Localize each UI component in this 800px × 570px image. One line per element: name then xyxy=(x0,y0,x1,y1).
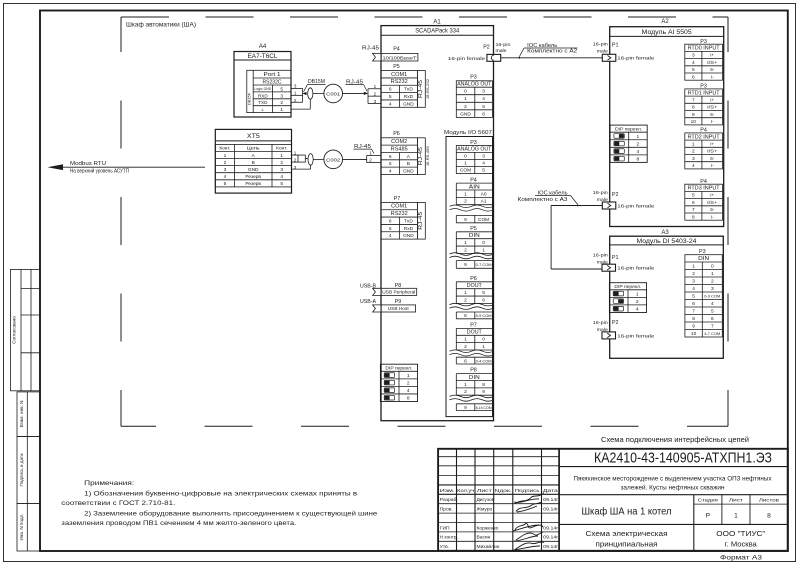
svg-text:P2: P2 xyxy=(612,192,619,198)
DIP switch block in A1 xyxy=(380,364,417,401)
svg-text:2: 2 xyxy=(636,299,639,305)
svg-text:USB Peripheral: USB Peripheral xyxy=(382,290,415,295)
svg-text:16-pin: 16-pin xyxy=(593,190,608,196)
svg-text:09.14г: 09.14г xyxy=(543,507,558,512)
svg-text:ANALOG OUT: ANALOG OUT xyxy=(457,147,491,153)
label IOC кабель Комплектно с А2 with leader xyxy=(518,43,577,59)
svg-text:RTD1 INPUT: RTD1 INPUT xyxy=(688,90,720,96)
svg-text:9: 9 xyxy=(464,262,467,268)
svg-text:4: 4 xyxy=(692,163,695,169)
svg-text:4: 4 xyxy=(482,96,485,102)
connector P1 of A2 16-pin xyxy=(593,42,655,62)
svg-text:6: 6 xyxy=(692,200,695,206)
svg-text:5: 5 xyxy=(692,193,695,199)
svg-text:1: 1 xyxy=(692,141,695,147)
svg-text:P3: P3 xyxy=(470,140,477,146)
table module P7 DOUT xyxy=(450,322,494,364)
svg-text:RTD2 INPUT: RTD2 INPUT xyxy=(688,134,720,140)
svg-text:TxD: TxD xyxy=(404,218,413,224)
wire junction vertical at DB15M xyxy=(302,88,304,102)
svg-text:C001: C001 xyxy=(326,91,340,97)
svg-text:P5: P5 xyxy=(393,64,400,70)
svg-text:DIN: DIN xyxy=(469,233,480,239)
svg-text:5-9 COM: 5-9 COM xyxy=(476,313,492,318)
svg-text:Модуль AI 5505: Модуль AI 5505 xyxy=(642,29,692,36)
svg-text:Михайлин: Михайлин xyxy=(477,543,500,550)
svg-text:RS232: RS232 xyxy=(391,211,408,217)
svg-text:г. Москва: г. Москва xyxy=(725,539,758,548)
label DB15M with leader xyxy=(304,79,326,92)
svg-text:3: 3 xyxy=(711,286,714,292)
svg-text:5: 5 xyxy=(482,104,485,110)
svg-text:0: 0 xyxy=(482,240,485,246)
svg-text:4: 4 xyxy=(692,286,695,292)
svg-text:COM1: COM1 xyxy=(391,72,407,78)
svg-text:RXD: RXD xyxy=(258,93,268,98)
svg-text:6: 6 xyxy=(389,154,392,160)
svg-text:A3: A3 xyxy=(661,230,669,236)
svg-text:Стадия: Стадия xyxy=(698,498,718,504)
svg-text:Васин: Васин xyxy=(477,535,491,541)
wire IOC cable A1.P2 to A2.P1 xyxy=(501,57,603,59)
title block header row Изм Кол.уч Лист Nдок Подпись Дата xyxy=(440,488,558,494)
svg-text:1: 1 xyxy=(692,263,695,269)
svg-text:J6-RS-485: J6-RS-485 xyxy=(426,146,430,166)
svg-text:КА2410-43-140905-АТХПН1.ЭЗ: КА2410-43-140905-АТХПН1.ЭЗ xyxy=(594,451,772,467)
wire IOC cable A2.P2 to A3.P1 xyxy=(551,206,602,270)
svg-text:16-pin female: 16-pin female xyxy=(448,56,485,62)
svg-text:S-: S- xyxy=(710,67,715,72)
svg-text:Подпись: Подпись xyxy=(515,488,541,494)
svg-text:S-: S- xyxy=(710,112,715,117)
svg-text:5: 5 xyxy=(692,67,695,73)
svg-text:0-4 COM: 0-4 COM xyxy=(476,358,492,363)
svg-text:TXD: TXD xyxy=(258,100,268,105)
svg-text:4: 4 xyxy=(389,169,392,175)
svg-text:J8-RS-232: J8-RS-232 xyxy=(426,79,430,99)
svg-text:B: B xyxy=(407,161,410,167)
svg-text:16-pin: 16-pin xyxy=(593,320,608,326)
svg-text:Р: Р xyxy=(706,512,711,519)
svg-text:9: 9 xyxy=(692,323,695,329)
svg-text:8: 8 xyxy=(637,156,640,162)
svg-text:8: 8 xyxy=(692,214,695,220)
svg-text:1: 1 xyxy=(374,84,377,89)
svg-text:TxD: TxD xyxy=(404,87,413,93)
table A1 port P7 COM1 RS232 xyxy=(381,196,425,239)
svg-text:5: 5 xyxy=(389,94,392,100)
svg-text:2: 2 xyxy=(369,158,372,163)
svg-text:Резерв: Резерв xyxy=(245,174,261,180)
svg-text:1: 1 xyxy=(294,91,297,96)
svg-text:5: 5 xyxy=(389,161,392,167)
svg-text:16-pin: 16-pin xyxy=(496,42,511,48)
svg-text:Комплектно с А2: Комплектно с А2 xyxy=(527,49,577,55)
svg-text:I+: I+ xyxy=(710,141,714,146)
svg-text:Конт.: Конт. xyxy=(276,146,287,151)
svg-text:GND: GND xyxy=(403,233,414,239)
svg-text:1: 1 xyxy=(464,96,467,102)
table module P4 AIN xyxy=(450,177,494,222)
svg-text:4: 4 xyxy=(389,101,392,107)
svg-text:DIP перекл.: DIP перекл. xyxy=(615,127,642,133)
svg-text:16-pin female: 16-pin female xyxy=(617,266,654,272)
svg-text:8: 8 xyxy=(692,105,695,111)
wire XT5 pin 1 to cable xyxy=(292,154,299,156)
svg-text:2: 2 xyxy=(280,100,283,106)
title block frame xyxy=(438,449,788,551)
svg-text:Цепь: Цепь xyxy=(247,146,261,151)
svg-text:2: 2 xyxy=(294,98,297,103)
svg-text:P9: P9 xyxy=(395,299,402,305)
svg-text:1: 1 xyxy=(482,344,485,350)
svg-text:6: 6 xyxy=(389,218,392,224)
svg-text:RS485: RS485 xyxy=(391,146,408,152)
svg-text:6: 6 xyxy=(389,87,392,93)
svg-text:9: 9 xyxy=(482,389,485,395)
svg-text:6: 6 xyxy=(692,301,695,307)
junction box XT5 pins 1-2 xyxy=(298,155,305,162)
svg-text:Разраб.: Разраб. xyxy=(440,497,458,503)
svg-text:6: 6 xyxy=(464,358,467,364)
svg-text:male: male xyxy=(597,49,608,55)
svg-text:Modbus RTU: Modbus RTU xyxy=(70,161,106,167)
terminal block XT5 xyxy=(215,129,291,193)
svg-text:1: 1 xyxy=(369,150,372,155)
svg-text:1: 1 xyxy=(407,373,410,379)
svg-text:male: male xyxy=(496,48,507,54)
svg-text:16-pin: 16-pin xyxy=(593,253,608,259)
svg-text:2: 2 xyxy=(637,141,640,147)
svg-text:9: 9 xyxy=(464,405,467,411)
svg-text:09.14г: 09.14г xyxy=(543,525,558,530)
svg-text:ANALOG OUT: ANALOG OUT xyxy=(457,82,491,88)
cable C002 circle xyxy=(313,150,342,169)
svg-text:DOUT: DOUT xyxy=(467,330,482,336)
svg-text:заземления проводом ПВ1 сечени: заземления проводом ПВ1 сечением 4 мм же… xyxy=(61,520,296,527)
svg-text:RxD: RxD xyxy=(404,94,414,100)
svg-text:6: 6 xyxy=(692,74,695,80)
connector P2 of A2 16-pin xyxy=(593,190,655,210)
signature squiggles xyxy=(513,494,544,551)
svg-text:I+: I+ xyxy=(710,193,714,198)
svg-text:16-pin female: 16-pin female xyxy=(617,56,654,62)
svg-text:1: 1 xyxy=(280,107,283,113)
svg-text:S-: S- xyxy=(710,207,715,212)
svg-text:A1: A1 xyxy=(481,199,487,205)
port P9 USB Host xyxy=(373,299,416,312)
svg-text:I+: I+ xyxy=(710,53,714,58)
svg-text:P4: P4 xyxy=(470,177,477,183)
svg-text:1: 1 xyxy=(464,290,467,296)
connector P1 of A3 16-pin xyxy=(593,253,655,272)
svg-text:09.14г: 09.14г xyxy=(543,497,558,502)
svg-text:Лист: Лист xyxy=(729,498,744,504)
svg-text:XT5: XT5 xyxy=(247,134,261,140)
svg-text:4: 4 xyxy=(224,174,227,180)
svg-text:6: 6 xyxy=(482,297,485,303)
svg-text:Утв.: Утв. xyxy=(440,544,449,550)
svg-text:1: 1 xyxy=(464,161,467,167)
svg-text:1: 1 xyxy=(464,240,467,246)
connector cable entry ellipse at XT5 xyxy=(305,154,313,166)
svg-text:Кол.уч: Кол.уч xyxy=(457,488,475,494)
svg-text:4-7 COM: 4-7 COM xyxy=(704,331,720,336)
svg-text:10: 10 xyxy=(691,331,697,337)
svg-text:5: 5 xyxy=(280,181,283,187)
svg-text:Изм.: Изм. xyxy=(440,488,455,494)
svg-text:8: 8 xyxy=(407,396,410,402)
DIP switch block in A3 xyxy=(609,283,646,313)
svg-text:Шкаф ША на 1 котел: Шкаф ША на 1 котел xyxy=(582,507,672,518)
svg-text:1: 1 xyxy=(637,134,640,140)
svg-text:Резерв: Резерв xyxy=(245,181,261,187)
svg-text:Жмуро: Жмуро xyxy=(477,507,493,513)
svg-text:2: 2 xyxy=(224,160,227,166)
wire A4 pin 3 to DB15M pin 1 xyxy=(291,94,303,96)
svg-text:GND: GND xyxy=(403,101,414,107)
junction arrow into DB15M xyxy=(302,92,306,95)
svg-text:2: 2 xyxy=(280,160,283,166)
svg-text:I/S+: I/S+ xyxy=(707,149,717,154)
title block stage/sheet cells xyxy=(559,495,788,551)
svg-text:B: B xyxy=(252,160,255,166)
svg-text:SCADAPack 334: SCADAPack 334 xyxy=(415,28,459,35)
svg-text:2: 2 xyxy=(464,344,467,350)
svg-text:3: 3 xyxy=(280,93,283,99)
svg-text:I+: I+ xyxy=(710,97,714,102)
svg-text:3: 3 xyxy=(280,167,283,173)
svg-text:P1: P1 xyxy=(612,42,619,48)
svg-text:COM2: COM2 xyxy=(391,139,407,145)
port P4 10/100BaseT with plug symbol xyxy=(373,47,418,62)
cable C001 circle xyxy=(313,84,343,103)
svg-text:Формат А3: Формат А3 xyxy=(720,554,762,561)
connector P2 of A3 16-pin xyxy=(593,320,655,339)
svg-text:I/S+: I/S+ xyxy=(707,200,717,205)
svg-text:P8: P8 xyxy=(470,368,477,374)
svg-text:5: 5 xyxy=(389,226,392,232)
svg-text:P5: P5 xyxy=(470,226,477,232)
wire cable C002 to A1 P6 plug xyxy=(343,150,382,162)
svg-text:Port 1: Port 1 xyxy=(264,72,281,78)
table A4 Port 1 RS232C xyxy=(246,70,291,113)
table A2 P4 RTD3 INPUT xyxy=(685,179,723,220)
title block signature rows xyxy=(440,497,559,550)
svg-text:A2: A2 xyxy=(661,19,669,25)
svg-text:5: 5 xyxy=(692,293,695,299)
svg-text:0-3 COM: 0-3 COM xyxy=(704,293,720,298)
table A3 P3 DIN xyxy=(685,249,722,337)
svg-text:⊥: ⊥ xyxy=(261,107,265,112)
svg-text:Инв. N подл.: Инв. N подл. xyxy=(19,513,24,540)
svg-text:Дата: Дата xyxy=(543,488,558,494)
svg-text:Пров.: Пров. xyxy=(440,507,453,513)
block A4 operator panel EA7-T6CL xyxy=(234,44,291,117)
table A2 P3 RTD0 INPUT xyxy=(685,39,723,81)
svg-text:RJ-45: RJ-45 xyxy=(418,147,424,165)
svg-text:Nдок.: Nдок. xyxy=(495,488,512,494)
wire XT5 pin 2 to cable xyxy=(292,161,299,163)
svg-text:RS232: RS232 xyxy=(391,79,408,85)
svg-text:4: 4 xyxy=(636,306,639,312)
svg-text:2: 2 xyxy=(711,278,714,284)
svg-text:5: 5 xyxy=(482,290,485,296)
svg-text:09.14г: 09.14г xyxy=(543,535,558,540)
title block document number xyxy=(559,451,788,467)
svg-text:1: 1 xyxy=(636,291,639,297)
svg-text:COM: COM xyxy=(478,217,489,223)
svg-text:2: 2 xyxy=(464,389,467,395)
svg-text:Согласовано: Согласовано xyxy=(12,316,17,344)
svg-text:GND: GND xyxy=(248,167,259,173)
svg-text:1: 1 xyxy=(224,153,227,159)
svg-text:7: 7 xyxy=(692,97,695,103)
title block project description xyxy=(559,476,788,495)
svg-text:10/100BaseT: 10/100BaseT xyxy=(383,55,417,61)
svg-text:8-15 COM: 8-15 COM xyxy=(476,405,492,410)
svg-text:2: 2 xyxy=(692,271,695,277)
table module P5 DIN xyxy=(450,226,494,268)
wire Modbus RTU bus to upper level xyxy=(48,161,206,175)
svg-text:9: 9 xyxy=(692,112,695,118)
svg-text:2: 2 xyxy=(464,247,467,253)
svg-text:S-: S- xyxy=(710,156,715,161)
svg-text:1: 1 xyxy=(711,271,714,277)
svg-text:1: 1 xyxy=(464,191,467,197)
svg-text:DOUT: DOUT xyxy=(467,283,482,289)
svg-text:6: 6 xyxy=(711,316,714,322)
svg-text:2: 2 xyxy=(464,297,467,303)
svg-text:P2: P2 xyxy=(483,45,490,51)
block A3 module DI 5403-24 xyxy=(610,230,724,358)
table A1 P3 ANALOG OUT xyxy=(456,74,492,117)
svg-text:ООО "ТИУС": ООО "ТИУС" xyxy=(716,529,765,538)
svg-text:GND: GND xyxy=(460,111,471,117)
svg-text:0: 0 xyxy=(711,263,714,269)
svg-text:2) Заземление оборудование вып: 2) Заземление оборудование выполнить при… xyxy=(84,509,377,517)
svg-text:0: 0 xyxy=(464,89,467,95)
svg-text:5: 5 xyxy=(711,308,714,314)
svg-text:2: 2 xyxy=(294,158,297,163)
svg-text:DIN: DIN xyxy=(469,375,480,381)
svg-text:0: 0 xyxy=(464,154,467,160)
svg-text:USB-A: USB-A xyxy=(360,299,377,305)
svg-text:P2: P2 xyxy=(612,320,619,326)
svg-text:Комплектно с А3: Комплектно с А3 xyxy=(518,197,568,203)
svg-text:Дигузов: Дигузов xyxy=(477,497,495,503)
svg-text:RJ-45: RJ-45 xyxy=(418,211,424,229)
svg-text:9: 9 xyxy=(464,217,467,223)
table XT5 terminals xyxy=(215,144,291,187)
svg-text:1: 1 xyxy=(294,150,297,155)
svg-text:7: 7 xyxy=(711,323,714,329)
svg-text:A4: A4 xyxy=(259,44,267,50)
svg-text:принципиальная: принципиальная xyxy=(596,539,658,548)
svg-text:4: 4 xyxy=(711,301,714,307)
block A2 module AI 5505 xyxy=(610,19,724,227)
svg-text:2: 2 xyxy=(692,149,695,155)
svg-text:1: 1 xyxy=(280,153,283,159)
svg-text:1: 1 xyxy=(464,382,467,388)
svg-text:AIN: AIN xyxy=(469,184,481,190)
svg-text:RJ-45: RJ-45 xyxy=(362,45,379,51)
svg-text:0-7 COM: 0-7 COM xyxy=(476,262,492,267)
svg-text:2: 2 xyxy=(407,380,410,386)
svg-text:Подпись и дата: Подпись и дата xyxy=(19,453,24,486)
svg-text:5: 5 xyxy=(482,168,485,174)
svg-text:1: 1 xyxy=(464,337,467,343)
svg-text:7: 7 xyxy=(692,207,695,213)
svg-text:RS232C: RS232C xyxy=(263,79,282,85)
svg-text:09.14г: 09.14г xyxy=(543,544,558,549)
svg-text:7: 7 xyxy=(692,308,695,314)
svg-text:0: 0 xyxy=(482,337,485,343)
svg-text:Модуль I/O 5607: Модуль I/O 5607 xyxy=(444,130,492,136)
table A2 P4 RTD2 INPUT xyxy=(685,128,723,169)
svg-text:6: 6 xyxy=(482,111,485,117)
svg-text:залежей. Кусты нефтяных скважи: залежей. Кусты нефтяных скважин xyxy=(621,484,726,492)
svg-text:соответствии с ГОСТ 2.710-81.: соответствии с ГОСТ 2.710-81. xyxy=(61,500,175,507)
svg-text:Взам. инв. N: Взам. инв. N xyxy=(19,401,24,428)
svg-text:16-pin female: 16-pin female xyxy=(617,203,654,209)
label RJ-45 with leader at P5 xyxy=(346,79,368,91)
left margin cell Инв. N подл. xyxy=(17,504,40,551)
svg-text:16-pin: 16-pin xyxy=(593,42,608,48)
svg-text:ГИП: ГИП xyxy=(440,525,450,531)
svg-text:2: 2 xyxy=(374,92,377,97)
cabinet boundary Шкаф автоматики (ША) dashed box xyxy=(121,17,728,426)
svg-text:C002: C002 xyxy=(326,157,340,163)
table A1 port P6 COM2 RS485 xyxy=(381,131,430,175)
DIP switch block in A2 xyxy=(610,125,647,162)
svg-text:16-pin female: 16-pin female xyxy=(617,333,654,339)
svg-text:P4: P4 xyxy=(393,47,400,53)
svg-text:3: 3 xyxy=(482,154,485,160)
svg-text:COM: COM xyxy=(460,168,471,174)
notes Примечания xyxy=(61,480,377,527)
svg-text:RTD0 INPUT: RTD0 INPUT xyxy=(688,46,720,52)
wire A4 shield pin 1 to DB15M shell xyxy=(291,108,310,110)
table module P8 DIN xyxy=(450,368,494,411)
svg-text:P3: P3 xyxy=(470,74,477,80)
title block organization xyxy=(716,529,765,548)
left margin approval block (Согласовано) xyxy=(11,269,41,390)
svg-text:Н.контр.: Н.контр. xyxy=(440,535,458,541)
svg-text:Logic GND: Logic GND xyxy=(254,86,271,91)
label IOC кабель Комплектно с А3 with leader xyxy=(518,190,579,206)
svg-text:8: 8 xyxy=(692,316,695,322)
svg-text:3: 3 xyxy=(294,84,297,89)
connector DB15M cable entry ellipse xyxy=(308,88,313,99)
svg-text:3: 3 xyxy=(692,53,695,59)
svg-text:P6: P6 xyxy=(470,276,477,282)
label RJ-45 with leader at P6 xyxy=(354,144,375,154)
svg-text:4: 4 xyxy=(692,60,695,66)
svg-text:RTD3 INPUT: RTD3 INPUT xyxy=(688,186,720,192)
svg-text:COM1: COM1 xyxy=(391,204,407,210)
svg-text:RxD: RxD xyxy=(404,226,414,232)
svg-text:4: 4 xyxy=(637,149,640,155)
svg-text:DIP перекл.: DIP перекл. xyxy=(614,284,641,290)
svg-text:На верхний уровень АСУТП: На верхний уровень АСУТП xyxy=(70,168,129,175)
svg-text:2: 2 xyxy=(464,199,467,205)
svg-text:Листов: Листов xyxy=(759,498,780,504)
svg-text:3: 3 xyxy=(224,167,227,173)
svg-text:Конт.: Конт. xyxy=(219,146,230,151)
svg-text:EA7-T6CL: EA7-T6CL xyxy=(248,53,279,60)
svg-text:P1: P1 xyxy=(612,255,619,261)
